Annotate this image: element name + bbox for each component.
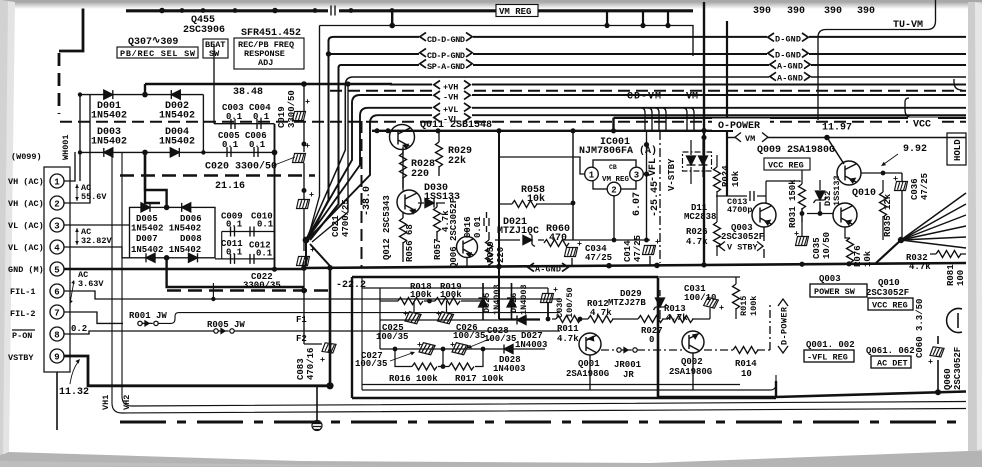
wire cap link right <box>274 124 276 269</box>
fan bundle down <box>306 240 330 266</box>
svg-text:R031 150k: R031 150k <box>788 179 798 228</box>
diode D003 <box>104 148 113 157</box>
O-POWER label <box>712 119 770 131</box>
net label A-GND (1) <box>769 60 811 72</box>
wire R031 bottom <box>801 208 803 236</box>
node c019 top <box>301 81 307 87</box>
svg-text:FIL-1: FIL-1 <box>10 287 36 297</box>
wire ic001 pin3 <box>643 173 647 175</box>
stub wires with dots <box>607 11 668 26</box>
svg-text:MTZJ10C: MTZJ10C <box>497 226 539 237</box>
svg-text:1N5402: 1N5402 <box>91 111 127 122</box>
node y319 a <box>546 317 551 322</box>
svg-text:100k: 100k <box>410 290 432 300</box>
VCC label <box>908 118 938 129</box>
svg-text:+: + <box>309 190 314 200</box>
wire pin9 thick <box>64 356 330 386</box>
C020 leader line <box>272 157 295 166</box>
svg-text:PB/REC SEL SW: PB/REC SEL SW <box>120 49 196 59</box>
dash-dot divider x660 <box>659 131 661 263</box>
svg-text:470/16: 470/16 <box>306 348 316 380</box>
wire r058 <box>499 203 573 205</box>
svg-text:C020 3300/50: C020 3300/50 <box>205 161 277 173</box>
svg-text:2: 2 <box>54 200 59 210</box>
node bridge2 bottom <box>164 255 170 261</box>
thick collector rail <box>372 130 733 132</box>
svg-text:4.7k: 4.7k <box>557 334 579 344</box>
node y319 b <box>578 317 583 322</box>
svg-text:D-GND: D-GND <box>775 35 801 45</box>
thick gnd rail x330 <box>329 268 332 386</box>
diode D004 <box>170 148 179 157</box>
node rail b <box>496 128 501 133</box>
photocoupler dash box <box>683 152 712 171</box>
svg-text:R056 68: R056 68 <box>405 224 415 262</box>
svg-text:+: + <box>577 239 582 249</box>
capacitor C010 <box>250 227 254 237</box>
right fan node <box>898 237 904 243</box>
svg-text:R017 100k: R017 100k <box>455 374 504 384</box>
svg-text:100/35: 100/35 <box>376 332 408 342</box>
IC001 pin 3 <box>630 167 644 181</box>
capacitor C016 <box>484 212 489 232</box>
wire row1 left <box>380 301 447 349</box>
AC 32.82V measurement <box>75 227 112 246</box>
svg-text:4,7k: 4,7k <box>590 308 612 318</box>
dashed divider below bridge2 <box>167 289 330 291</box>
diode D027 <box>517 316 526 325</box>
svg-text:R015: R015 <box>739 296 749 316</box>
capacitor C030 electrolytic <box>541 294 554 303</box>
svg-text:10/50: 10/50 <box>822 232 832 259</box>
pin numbers <box>54 178 60 363</box>
wire Q006 emitter <box>466 229 468 266</box>
svg-text:47/25: 47/25 <box>920 173 930 200</box>
bridge1 wires <box>80 44 322 344</box>
svg-text:+: + <box>553 285 558 295</box>
zener D021 <box>523 234 535 247</box>
resistor R029 vertical <box>436 142 443 167</box>
svg-text:2: 2 <box>611 186 616 196</box>
capacitor C020 electrolytic <box>293 154 306 163</box>
connector WH001 box <box>44 167 70 372</box>
vertical rail x499 <box>498 131 500 319</box>
svg-text:Q001. 002: Q001. 002 <box>806 340 855 350</box>
net label V STBY <box>719 242 763 253</box>
wire ic001 left <box>499 157 585 174</box>
resistor R015 vertical <box>733 284 740 309</box>
svg-text:HOLD: HOLD <box>953 139 963 161</box>
scan right margin <box>968 2 982 451</box>
svg-text:32.82V: 32.82V <box>81 236 113 246</box>
svg-text:55.6V: 55.6V <box>81 192 107 202</box>
svg-text:A-GND: A-GND <box>777 62 803 72</box>
svg-text:47/25: 47/25 <box>585 253 612 263</box>
svg-text:3300/35: 3300/35 <box>243 281 281 291</box>
bus -VL <box>307 115 967 240</box>
-VFL REG box <box>804 350 854 363</box>
wire pin1 <box>64 152 75 181</box>
capacitor C014 electrolytic <box>643 246 656 255</box>
svg-text:-VFL: -VFL <box>648 158 659 182</box>
svg-text:V-STBY: V-STBY <box>667 158 677 191</box>
VCC REG box bottom <box>868 298 913 311</box>
svg-text:1N4003: 1N4003 <box>492 284 502 315</box>
svg-text:MC2838: MC2838 <box>684 212 716 222</box>
svg-text:+: + <box>320 355 325 365</box>
transistor Q001 <box>579 333 601 355</box>
IC001 pin 1 <box>585 167 599 181</box>
svg-text:Q006 2SC3052F: Q006 2SC3052F <box>449 198 459 268</box>
svg-text:4.7k: 4.7k <box>909 262 931 272</box>
top-right rail cluster <box>320 26 694 57</box>
wire c003 feed <box>213 44 215 124</box>
net label CD-P-GND <box>419 48 473 61</box>
node main gnd <box>326 382 333 389</box>
capacitor C028b tilted <box>452 342 468 355</box>
node bridge1 left bottom <box>78 150 82 154</box>
wire pin5 GND <box>64 268 304 270</box>
capacitor C035 electrolytic <box>796 237 809 246</box>
resistor R019 <box>435 298 460 305</box>
svg-text:1N5402: 1N5402 <box>159 111 195 122</box>
svg-text:R014: R014 <box>735 359 757 369</box>
node r016 <box>441 364 446 369</box>
svg-text:A-GND: A-GND <box>777 74 803 84</box>
node agnd c <box>654 263 660 269</box>
svg-text:VSTBY: VSTBY <box>8 353 34 363</box>
wire bridge1 right <box>202 95 204 153</box>
resistor R060 <box>544 240 569 247</box>
wire below connector <box>56 372 58 430</box>
wire bridge1 left <box>79 95 81 181</box>
wire C030 down <box>547 303 549 319</box>
BEAT SW box <box>203 39 228 59</box>
svg-text:R076: R076 <box>853 245 863 267</box>
diode D030 <box>425 199 434 208</box>
resistor R024 vertical <box>714 167 721 192</box>
diode D001 <box>104 90 113 99</box>
bus D-POWER thick <box>614 118 967 131</box>
wire Q001 down <box>589 355 591 390</box>
svg-text:1N4003: 1N4003 <box>519 284 529 315</box>
svg-text:C019: C019 <box>277 106 287 128</box>
bus +VL <box>307 108 967 240</box>
svg-text:O-POWER: O-POWER <box>718 121 760 132</box>
svg-text:9: 9 <box>54 353 59 363</box>
node y299 <box>211 297 215 301</box>
bus +VH thick left <box>145 83 392 85</box>
svg-text:100: 100 <box>956 270 966 286</box>
svg-text:CD-VM: CD-VM <box>627 92 661 103</box>
svg-text:11.97: 11.97 <box>822 123 852 134</box>
fan node <box>303 237 310 244</box>
bridge2 top tap from bridge1 <box>145 152 167 207</box>
node A-GND dots <box>701 262 706 267</box>
wire pin8 <box>64 331 214 334</box>
A-GND thick bus <box>304 263 966 268</box>
svg-text:2SA1980G: 2SA1980G <box>669 367 712 377</box>
svg-text:1SS133: 1SS133 <box>832 175 842 206</box>
lower center inner box <box>362 277 776 390</box>
capacitor C021e electrolytic <box>297 200 310 209</box>
svg-text:100/50: 100/50 <box>565 287 575 318</box>
diode D028 <box>504 345 513 354</box>
node r058 <box>571 201 576 206</box>
svg-text:390: 390 <box>824 6 842 17</box>
svg-text:0.2: 0.2 <box>71 324 87 334</box>
wire cap row1 <box>380 319 540 321</box>
resistor R011 <box>556 316 581 323</box>
right section box <box>658 278 966 397</box>
svg-text:R011: R011 <box>557 324 579 334</box>
diode D005 <box>141 203 150 212</box>
capacitor C034 electrolytic <box>565 248 578 257</box>
svg-text:F1: F1 <box>296 315 307 325</box>
9.92 arrow <box>884 154 898 164</box>
elbow wire right2 <box>954 79 962 90</box>
node x704 b <box>701 135 706 140</box>
capacitor C012 <box>250 254 254 264</box>
resistor R056 vertical <box>400 218 407 243</box>
svg-text:2SC3906: 2SC3906 <box>183 25 225 36</box>
svg-text:2SC3052F: 2SC3052F <box>866 288 909 298</box>
AC 55.6V measurement <box>75 183 107 202</box>
node bridge1 bottom center <box>142 150 148 156</box>
svg-text:+: + <box>305 97 310 107</box>
svg-text:D005: D005 <box>136 214 158 224</box>
wire r018 row <box>380 300 483 302</box>
svg-text:D008: D008 <box>180 234 202 244</box>
wire D026 column <box>511 283 513 320</box>
svg-text:4700p: 4700p <box>727 205 753 215</box>
svg-text:+: + <box>794 229 799 239</box>
capacitor C003 <box>231 119 235 129</box>
svg-text:D-GND: D-GND <box>775 51 801 61</box>
transistor Q011 <box>390 125 415 150</box>
node bottom right <box>935 389 941 395</box>
net label -VH <box>432 91 472 103</box>
svg-text:D026: D026 <box>509 293 519 313</box>
svg-text:1: 1 <box>589 171 595 181</box>
capacitor C009 <box>231 227 235 237</box>
svg-text:5: 5 <box>54 266 59 276</box>
svg-text:+: + <box>305 141 310 151</box>
capacitor C006 <box>254 147 258 157</box>
wire D32 bottom <box>819 202 821 214</box>
AC 3.63V measurement <box>69 270 104 304</box>
svg-text:2SC3052F: 2SC3052F <box>721 232 764 242</box>
resistor R018 <box>398 298 423 305</box>
svg-text:+: + <box>450 340 455 350</box>
svg-text:1N5402 1N5402: 1N5402 1N5402 <box>131 245 201 255</box>
thick vertical feed x707 <box>703 2 705 265</box>
wire cap row2 <box>380 348 545 350</box>
dash-dot wire q001 q002 <box>601 303 770 350</box>
wire base row Q010 <box>807 213 833 215</box>
svg-text:Q001: Q001 <box>578 359 600 369</box>
svg-text:0.01: 0.01 <box>473 216 483 238</box>
resistor R076 vertical <box>847 238 854 263</box>
resistor R059 vertical <box>486 240 493 265</box>
node gnd rail top <box>327 265 333 271</box>
bus CD-D-GND <box>309 37 967 239</box>
svg-text:6: 6 <box>54 288 59 298</box>
svg-text:2SC3052F: 2SC3052F <box>953 347 963 390</box>
thick vertical feed x727 <box>726 21 728 196</box>
svg-text:Q009 2SA1980G: Q009 2SA1980G <box>757 145 835 156</box>
svg-text:3: 3 <box>54 222 59 232</box>
transistor Q012 <box>397 190 421 214</box>
transistor Q006 <box>457 237 478 258</box>
resistor R026 vertical <box>714 222 721 247</box>
svg-text:VCC REG: VCC REG <box>768 161 804 171</box>
wire D025 column <box>482 283 484 320</box>
svg-text:22k: 22k <box>448 155 466 167</box>
svg-text:38.48: 38.48 <box>233 87 263 98</box>
svg-text:8: 8 <box>54 331 59 341</box>
wire to ground <box>316 386 318 421</box>
right fan wires <box>876 193 966 263</box>
fuse wire F1 <box>158 313 560 324</box>
svg-text:JR: JR <box>623 370 634 380</box>
svg-text:Q061. 062: Q061. 062 <box>866 346 915 356</box>
wire R031 top link <box>766 181 800 196</box>
wire C036 down <box>901 191 903 237</box>
svg-text:SP-A-GND: SP-A-GND <box>427 62 465 72</box>
net label D-POWER vertical <box>778 299 790 353</box>
wire y299 stub <box>212 283 214 299</box>
diode D002 <box>171 90 180 99</box>
svg-text:100k: 100k <box>749 296 759 316</box>
svg-text:+: + <box>928 357 933 367</box>
vertical wire x646 <box>646 131 648 215</box>
scan left margin <box>0 0 15 454</box>
svg-text:0.1 0.1: 0.1 0.1 <box>226 112 270 122</box>
net label A-GND (2) <box>769 72 811 84</box>
svg-text:47/25: 47/25 <box>633 235 643 262</box>
svg-text:D-POWER: D-POWER <box>780 306 790 345</box>
node bridge1 left top <box>78 92 82 96</box>
capacitor C011 <box>231 254 235 264</box>
resistor R035 vertical <box>880 192 887 217</box>
net label A-GND mid <box>527 263 569 275</box>
node x646 a <box>644 142 649 147</box>
resistor R027 <box>638 316 663 323</box>
wire c011 row <box>215 258 275 260</box>
node wire240 a <box>612 238 617 243</box>
svg-text:VL (AC): VL (AC) <box>8 243 44 253</box>
junction dots top rail <box>180 8 395 13</box>
svg-text:SFR451.452: SFR451.452 <box>241 28 301 39</box>
wire ic001 pin2 down <box>613 196 615 240</box>
vertical rail x576 <box>572 131 574 240</box>
svg-text:VH2: VH2 <box>122 395 132 410</box>
bus CD-P-GND <box>329 53 967 55</box>
net label D-GND (2) <box>767 49 809 61</box>
resistor R028 vertical <box>400 153 407 178</box>
capacitor C027 tilted <box>419 342 435 355</box>
svg-text:CD-D-GND: CD-D-GND <box>427 35 465 45</box>
wire VM to Q009 <box>827 138 844 165</box>
bus A-GND <box>306 77 966 240</box>
svg-text:1N5402 1N5402: 1N5402 1N5402 <box>131 224 201 234</box>
bus +VH <box>390 84 966 86</box>
resistor R058 <box>512 201 537 208</box>
svg-text:D006: D006 <box>180 214 202 224</box>
top bus rail thick <box>126 9 693 12</box>
capacitor C083 electrolytic <box>322 343 336 354</box>
VM REG box <box>496 5 538 18</box>
svg-text:4.7k: 4.7k <box>686 237 708 247</box>
net label VM <box>735 133 768 144</box>
svg-text:ADJ: ADJ <box>258 58 273 68</box>
node base row a <box>800 211 805 216</box>
scan bottom margin <box>0 451 982 467</box>
svg-text:100/35: 100/35 <box>355 359 387 369</box>
wire bridge1 bottom <box>80 151 275 153</box>
capacitor on top rail <box>331 6 335 16</box>
svg-text:FIL-2: FIL-2 <box>10 309 36 319</box>
node base row b <box>818 211 823 216</box>
wire pin2 <box>64 95 90 203</box>
wire bridge1 center thick up <box>144 84 146 95</box>
svg-text:C016: C016 <box>463 216 473 238</box>
svg-text:0.1 0.1: 0.1 0.1 <box>222 140 266 150</box>
svg-text:+: + <box>655 237 660 247</box>
svg-text:R024: R024 <box>721 165 731 187</box>
net label -VL <box>432 113 472 125</box>
transistor Q060 arc <box>947 309 962 333</box>
wire bridge1 center thick down <box>145 152 160 203</box>
vertical wire bundle c019 <box>308 26 348 243</box>
bus SP-A-GND <box>310 65 966 240</box>
VH2 wire <box>122 152 966 406</box>
wire r01x row <box>499 290 710 319</box>
POWER SW box <box>810 284 867 297</box>
TU-VM wire <box>818 0 936 120</box>
fuse wire F2 <box>234 330 560 332</box>
dashed divider below bridge1 <box>120 174 315 176</box>
svg-text:Q060: Q060 <box>943 368 953 390</box>
svg-text:Q012 2SC5343: Q012 2SC5343 <box>382 195 392 260</box>
svg-text:R057: R057 <box>433 238 443 260</box>
lower center section box <box>352 277 776 398</box>
REC/PB FREQ RESPONSE ADJ box <box>234 38 304 69</box>
scan top edge shadow <box>0 0 982 9</box>
wire c019 column <box>304 84 322 344</box>
net label D-GND (1) <box>767 33 809 45</box>
node c019 mid2 <box>302 188 307 193</box>
wire r016 row <box>395 349 483 367</box>
C028 arrow <box>470 338 492 347</box>
resistor R031 vertical <box>799 184 806 209</box>
wire Q002 down <box>692 353 694 390</box>
transistor Q009b <box>837 161 861 185</box>
diode opto2 <box>699 156 708 165</box>
svg-text:Q002: Q002 <box>681 357 703 367</box>
svg-text:R026: R026 <box>686 227 708 237</box>
svg-text:0.1: 0.1 <box>256 249 273 259</box>
svg-text:CB: CB <box>609 164 617 171</box>
node rail feed <box>389 23 395 29</box>
svg-text:10: 10 <box>741 369 752 379</box>
node r018 row <box>427 299 432 304</box>
wire V STBY left <box>716 245 720 247</box>
svg-text:4: 4 <box>54 244 60 254</box>
svg-text:VH (AC): VH (AC) <box>8 177 44 187</box>
wires opto <box>691 140 703 184</box>
